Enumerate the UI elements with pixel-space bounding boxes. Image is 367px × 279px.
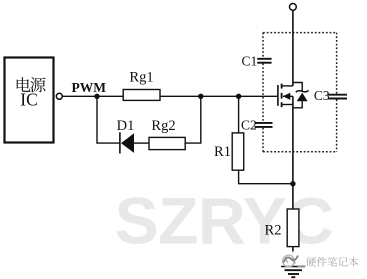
svg-text:SZRYC: SZRYC xyxy=(115,184,334,258)
capacitor C3 xyxy=(328,94,347,96)
svg-text:C1: C1 xyxy=(242,53,258,68)
pin terminal circle xyxy=(56,93,62,99)
diode D1 xyxy=(119,132,121,153)
source lead xyxy=(282,104,293,106)
drain lead xyxy=(282,85,293,87)
wire PWM gate line xyxy=(62,95,278,97)
power IC U1 box xyxy=(5,58,54,143)
channel segments xyxy=(281,84,283,89)
wire node down to R1 xyxy=(238,96,240,133)
node PWM junction xyxy=(94,94,99,99)
ground xyxy=(281,265,305,267)
svg-text:C2: C2 xyxy=(241,117,257,132)
wire R1 to source node xyxy=(239,170,293,184)
wire branch down from PWM node xyxy=(97,96,120,143)
resistor Rg2 xyxy=(149,137,185,149)
wire drain vertical xyxy=(292,10,294,86)
transistor Q1 MOSFET gate bar xyxy=(277,85,279,106)
wire Rg2 up to node xyxy=(185,96,201,143)
node source junction xyxy=(290,181,295,186)
body diode of Q1 xyxy=(293,83,302,92)
node after Rg1 xyxy=(198,94,203,99)
wire source vertical xyxy=(292,96,294,209)
svg-text:Rg1: Rg1 xyxy=(129,70,153,86)
wire D1 to Rg2 xyxy=(134,142,149,144)
svg-text:C3: C3 xyxy=(314,88,330,103)
wire R2 to ground xyxy=(292,247,294,267)
dashed parasitic box xyxy=(263,32,337,34)
capacitor C2 xyxy=(255,122,273,124)
top terminal xyxy=(290,4,297,11)
svg-text:R1: R1 xyxy=(214,144,231,160)
svg-text:R2: R2 xyxy=(265,222,282,238)
svg-text:D1: D1 xyxy=(117,118,135,134)
watermark logo icon xyxy=(280,252,303,266)
body arrow lead xyxy=(283,95,293,97)
watermark text 硬件笔记本 xyxy=(298,265,306,267)
label 电源 IC xyxy=(17,77,31,92)
svg-text:PWM: PWM xyxy=(72,80,107,95)
node R1 tap xyxy=(236,94,241,99)
svg-text:IC: IC xyxy=(20,90,38,110)
resistor R2 xyxy=(287,209,299,247)
resistor R1 xyxy=(232,133,244,170)
resistor Rg1 xyxy=(123,90,160,101)
capacitor C1 xyxy=(257,58,271,60)
svg-text:Rg2: Rg2 xyxy=(151,118,175,134)
